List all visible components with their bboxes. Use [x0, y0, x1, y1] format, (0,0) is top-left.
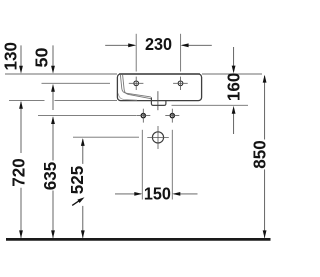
- svg-text:525: 525: [67, 166, 87, 195]
- drain axis line: [157, 91, 159, 110]
- fixing hole D: [165, 109, 179, 123]
- svg-text:150: 150: [144, 184, 171, 204]
- fixing hole B: [173, 77, 188, 90]
- dim 130: [1, 42, 23, 74]
- svg-text:635: 635: [40, 162, 60, 191]
- basin interior wall line 1: [120, 75, 150, 97]
- svg-text:230: 230: [145, 34, 172, 54]
- dim 160: [224, 47, 244, 134]
- dim 50: [32, 45, 55, 110]
- dim 720: [9, 101, 29, 238]
- floor line: [6, 238, 271, 241]
- svg-text:130: 130: [1, 42, 21, 71]
- dim 525: [67, 138, 87, 238]
- node L1 rim reference line: [5, 73, 117, 75]
- node L3 basin bottom reference line: [9, 99, 45, 101]
- drain outlet symbol: [147, 126, 169, 149]
- fixing hole A: [129, 77, 144, 90]
- dim 230: [105, 34, 212, 54]
- fixing hole C: [136, 109, 150, 123]
- dim 230 extension lines: [135, 34, 137, 72]
- node L4 lower fixing hole reference line: [38, 115, 136, 117]
- drain flange: [151, 97, 166, 105]
- dim 150 extension lines: [141, 130, 143, 200]
- basin outline: [117, 74, 201, 101]
- dim 635: [40, 116, 60, 238]
- basin interior bottom-left edge: [118, 94, 137, 101]
- svg-text:850: 850: [250, 140, 270, 169]
- svg-text:50: 50: [32, 47, 52, 67]
- svg-text:160: 160: [224, 73, 244, 102]
- svg-text:720: 720: [9, 158, 29, 187]
- node L5 drain height reference line: [73, 136, 139, 138]
- node L2 upper fixing hole reference line: [42, 82, 111, 84]
- node 160 bottom reference line: [172, 104, 249, 106]
- dim 150: [115, 184, 198, 204]
- basin interior wall line 2: [123, 75, 151, 99]
- dim 850: [250, 75, 270, 238]
